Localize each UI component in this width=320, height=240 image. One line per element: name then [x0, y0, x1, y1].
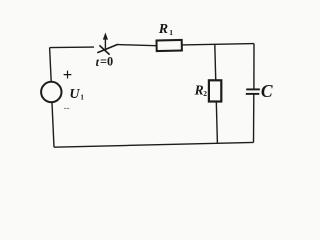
wire switch to R1 [118, 45, 157, 46]
svg-text:U: U [69, 87, 80, 102]
wire bottom [54, 142, 254, 147]
capacitor C bottom plate [246, 93, 259, 95]
switch arrowhead [103, 33, 108, 40]
voltage source U1 circle [41, 82, 61, 102]
svg-text:R: R [194, 82, 204, 97]
switch cross stroke [99, 45, 109, 54]
wire left lower vertical [52, 103, 54, 147]
svg-text:C: C [261, 81, 273, 101]
resistor R2 box [209, 80, 221, 101]
svg-text:2: 2 [203, 89, 207, 98]
capacitor C top plate [246, 88, 260, 90]
wire right side lower [253, 94, 255, 142]
wire top-left from corner to switch [50, 46, 94, 49]
wire left side vertical [50, 48, 52, 82]
wire R1 to top-right corner [182, 44, 254, 45]
svg-text:+: + [63, 65, 73, 84]
svg-text:--: -- [64, 103, 70, 113]
wire R2 branch [215, 44, 218, 143]
wire right side upper [253, 44, 255, 89]
switch S blade [97, 44, 118, 53]
switch arrow shaft [104, 37, 106, 51]
svg-text:1: 1 [80, 93, 84, 101]
svg-text:1: 1 [169, 28, 173, 37]
svg-text:R: R [158, 22, 168, 37]
svg-text:=0: =0 [100, 55, 113, 69]
resistor R1 box [156, 40, 181, 51]
